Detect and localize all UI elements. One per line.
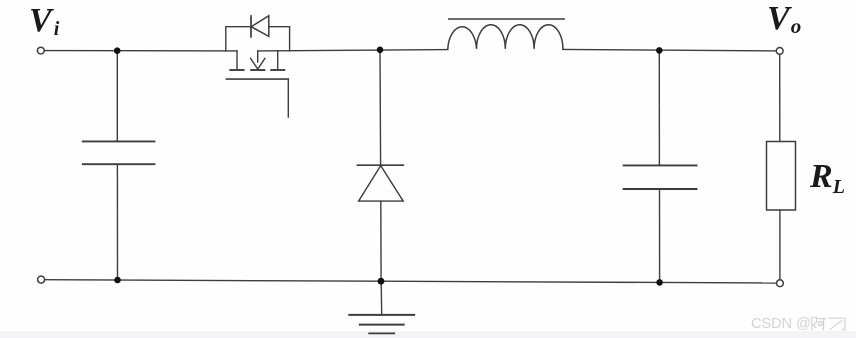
wire Q1 gate lead bbox=[287, 79, 289, 117]
D1 triangle (pointing up) bbox=[359, 166, 404, 202]
terminal Vo- (open circle, bottom right) bbox=[777, 280, 784, 287]
ground bbox=[349, 315, 414, 334]
inductor L1 top bar bbox=[449, 18, 565, 20]
bottom light strip bbox=[0, 331, 856, 338]
watermark CSDN @阿刁 bbox=[751, 316, 811, 332]
wire freewheel diode top lead bbox=[379, 50, 382, 165]
wire input capacitor bottom lead bbox=[116, 164, 118, 280]
wire freewheel diode bottom lead bbox=[380, 201, 382, 281]
wire ground stem bbox=[380, 281, 383, 315]
wire body-diode right leg bbox=[269, 27, 290, 51]
capacitor C2 (output capacitor plates) bbox=[624, 165, 697, 189]
terminal Vi- (open circle, bottom left) bbox=[38, 276, 45, 283]
wire output capacitor top lead bbox=[658, 50, 660, 165]
resistor RL (rectangle) bbox=[767, 142, 796, 211]
wire RL to bottom terminal bbox=[779, 210, 781, 280]
watermark glyph 刁 bbox=[829, 318, 846, 330]
watermark glyph 阿 bbox=[812, 317, 826, 330]
diode D-body (triangle, pointing left) bbox=[251, 16, 269, 37]
label RL bbox=[810, 158, 845, 199]
Q1 drain bar bbox=[230, 69, 243, 71]
inductor L1 (four humps) bbox=[448, 19, 564, 49]
wire input capacitor top lead bbox=[116, 51, 118, 142]
Q1 body stub with arrow bbox=[257, 51, 259, 62]
node junction dot (top, output cap) bbox=[656, 47, 663, 54]
wire Vo terminal to RL bbox=[779, 54, 781, 141]
node junction dot (bottom, ground) bbox=[378, 278, 385, 285]
diode D1 (freewheeling diode) bbox=[357, 165, 403, 201]
Q1 gate electrode line bbox=[226, 78, 288, 80]
terminal Vo+ (open circle, top right) bbox=[776, 48, 783, 55]
wire top rail left section (Vi terminal to MOSFET drain) bbox=[44, 50, 237, 52]
Q1 drain stub bbox=[236, 51, 238, 70]
Q1 source bar bbox=[271, 69, 284, 71]
wire bottom rail bbox=[45, 280, 777, 283]
label Vo bbox=[767, 0, 801, 39]
node junction dot (top, input cap) bbox=[114, 47, 121, 54]
Q1 body bar bbox=[251, 69, 264, 71]
wire top rail right section (MOSFET source to inductor) bbox=[258, 50, 448, 51]
label Vi bbox=[29, 2, 59, 41]
node junction dot (bottom, output cap) bbox=[656, 279, 663, 286]
Q1 source stub bbox=[277, 51, 279, 70]
transistor Q1 (MOSFET with body diode) bbox=[226, 16, 290, 117]
node junction dot (bottom, input cap) bbox=[114, 277, 121, 284]
terminal Vi+ (open circle, top left) bbox=[37, 47, 44, 54]
D1 cathode bar bbox=[357, 164, 403, 166]
node junction dot (top, freewheel diode) bbox=[377, 47, 384, 54]
wire top rail (inductor to Vo terminal) bbox=[563, 49, 777, 51]
wire output capacitor bottom lead bbox=[659, 189, 661, 282]
wire body-diode left leg bbox=[226, 27, 251, 51]
diode D-body (cathode bar) bbox=[250, 16, 252, 37]
capacitor C1 (input capacitor plates) bbox=[83, 141, 155, 164]
